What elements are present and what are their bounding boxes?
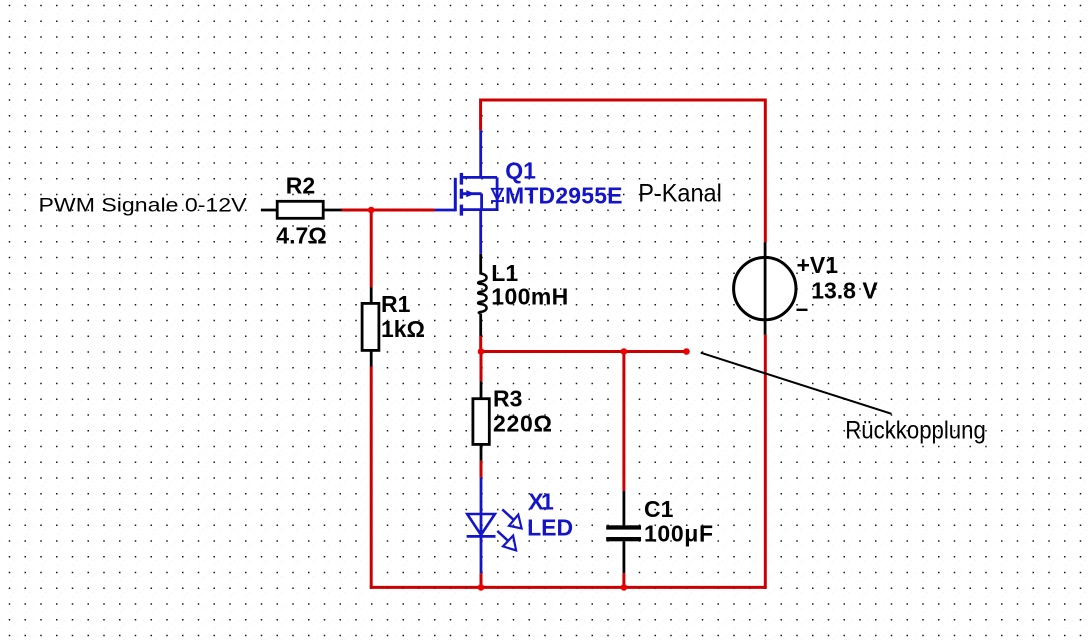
svg-text:R1: R1	[381, 291, 411, 317]
svg-text:MTD2955E: MTD2955E	[505, 182, 623, 208]
svg-text:Rückkopplung: Rückkopplung	[845, 417, 986, 445]
svg-text:R3: R3	[493, 385, 522, 411]
svg-text:100mH: 100mH	[491, 283, 568, 309]
svg-text:C1: C1	[644, 496, 674, 522]
svg-text:X1: X1	[528, 489, 554, 515]
svg-text:220Ω: 220Ω	[493, 410, 552, 436]
svg-text:4.7Ω: 4.7Ω	[276, 223, 326, 249]
svg-text:+V1: +V1	[797, 252, 839, 278]
svg-text:L1: L1	[491, 260, 518, 286]
svg-text:R2: R2	[286, 173, 315, 199]
svg-text:LED: LED	[527, 514, 573, 540]
svg-text:13.8 V: 13.8 V	[811, 277, 878, 303]
svg-text:Q1: Q1	[505, 157, 536, 183]
svg-text:PWM Signale 0-12V: PWM Signale 0-12V	[39, 195, 247, 217]
svg-text:1kΩ: 1kΩ	[381, 316, 425, 342]
svg-text:100μF: 100μF	[644, 520, 713, 546]
svg-text:P-Kanal: P-Kanal	[638, 180, 722, 208]
